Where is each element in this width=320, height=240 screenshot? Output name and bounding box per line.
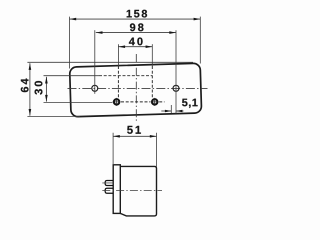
dashed line between mounting holes	[121, 101, 150, 103]
mounting hole right (dark circle)	[152, 99, 157, 104]
screw hole left (light circle)	[92, 85, 98, 91]
dimension 40 left extension line (solid above lamp)	[117, 44, 119, 66]
extension line y102.4 from dim 30 to left mounting hole	[44, 101, 113, 103]
dimension 51 left arrow	[113, 135, 120, 138]
dimension 158 left extension line	[69, 17, 71, 69]
side view lens rim	[113, 165, 120, 214]
dimension 158 left arrow	[70, 18, 77, 21]
vertical centerline (front view)	[135, 54, 137, 122]
dimension 40 left arrow	[118, 45, 125, 48]
lamp front view outline	[70, 63, 202, 117]
dimension 5,1 right-pointing arrow	[165, 110, 171, 113]
dimension 98 text	[130, 23, 144, 31]
hidden bracket left edge dashed	[117, 66, 119, 98]
dimension 64 bottom extension line	[27, 115, 80, 117]
hidden bracket right edge dashed	[151, 66, 153, 98]
dimension 40 text	[129, 37, 143, 45]
dimension 64 top extension line	[27, 61, 193, 63]
dashed stub right of right mounting hole	[159, 101, 164, 103]
dimension 5,1 left extension line	[170, 105, 172, 113]
dimension 30 line	[45, 77, 47, 102]
side view centerline	[102, 190, 162, 192]
dimension 158 right extension line	[199, 17, 201, 64]
dimension 5,1 text	[182, 99, 198, 108]
extension/crosshair line through right screw hole	[175, 30, 177, 113]
hidden bracket top edge dashed	[99, 75, 152, 77]
mounting hole left (dark circle)	[114, 99, 119, 104]
dimension 64 top arrow	[29, 63, 32, 70]
dimension 98 right arrow	[169, 31, 176, 34]
dimension 51 right extension line	[156, 133, 158, 167]
dimension 98 line	[96, 32, 176, 34]
side view housing body	[120, 166, 156, 216]
dimension 98 left arrow	[96, 31, 103, 34]
dimension 51 left extension line	[112, 133, 114, 165]
dimension 5,1 left-pointing arrow	[176, 110, 182, 113]
dimension 64 line	[29, 63, 31, 115]
dimension 30 text (rotated)	[35, 81, 43, 95]
dimension 51 text	[127, 126, 141, 134]
dimension 30 top extension line	[44, 75, 100, 77]
dimension 64 text (rotated)	[21, 79, 29, 93]
connector pin 1	[105, 180, 113, 185]
dimension 30 top arrow	[45, 77, 48, 84]
dimension 158 line	[70, 18, 201, 20]
connector pin 2	[105, 188, 113, 193]
dimension 5,1 right part line	[176, 110, 184, 112]
dimension 64 bottom arrow	[29, 109, 32, 116]
dimension 30 bottom arrow	[45, 95, 48, 102]
extension/crosshair line through left screw hole	[94, 30, 96, 94]
pin 1 centerline whisker	[102, 182, 113, 184]
dimension 51 line	[113, 135, 156, 137]
horizontal centerline (front view)	[68, 87, 208, 89]
dimension 40 right arrow	[146, 45, 153, 48]
dimension 51 right arrow	[150, 135, 157, 138]
dimension 158 text	[127, 10, 147, 18]
screw hole right (light circle)	[173, 85, 179, 91]
dimension 158 right arrow	[194, 18, 201, 21]
dimension 5,1 left part line	[161, 110, 171, 112]
dimension 40 line	[118, 46, 152, 48]
dimension 40 right extension line (solid above lamp)	[151, 44, 153, 66]
